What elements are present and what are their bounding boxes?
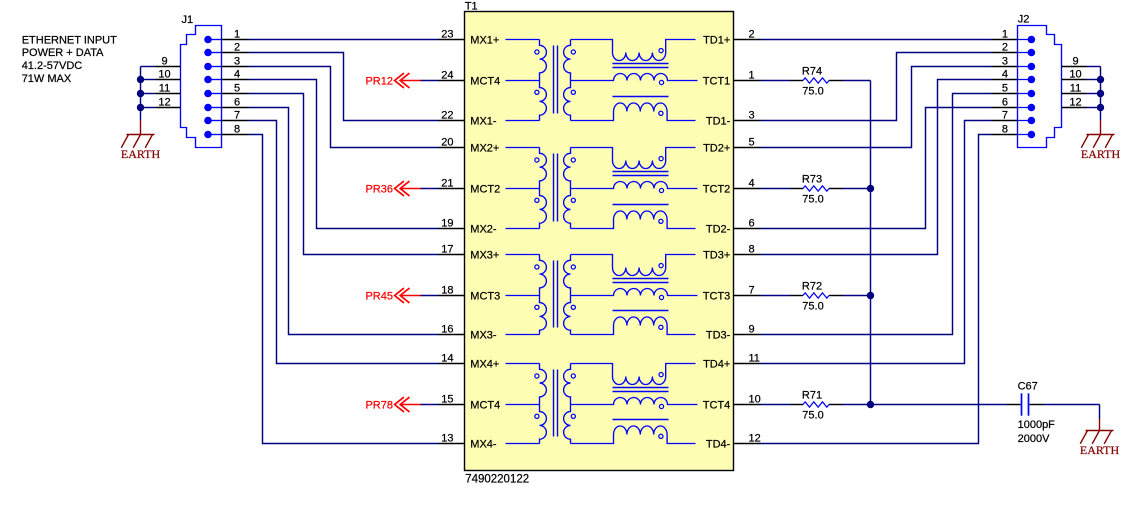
svg-text:3: 3 — [234, 55, 240, 67]
svg-text:7490220122: 7490220122 — [465, 474, 529, 486]
svg-text:9: 9 — [749, 323, 755, 335]
transformer T1 channel 3 core — [554, 261, 558, 328]
wire net TD3+ to J2.4 — [761, 80, 992, 255]
J2 pin 10 — [1062, 68, 1101, 80]
svg-text:1: 1 — [749, 69, 755, 81]
choke T1 channel 3 bottom winding — [571, 317, 696, 335]
ground right EARTH (EARTH symbol) — [1081, 135, 1121, 161]
transformer T1 channel 3 primary winding — [535, 255, 547, 335]
svg-text:9: 9 — [161, 55, 167, 67]
connector J1 body — [181, 26, 222, 148]
transformer T1 body (hierarchical block) — [465, 12, 734, 471]
svg-text:J1: J1 — [182, 14, 194, 26]
wire net J1.2 to T1 (vertical at x=343.5) — [249, 53, 439, 121]
wire J2 shield bus vertical to EARTH — [1100, 67, 1102, 120]
junction J2 pin10 — [1097, 76, 1104, 83]
svg-text:3: 3 — [1002, 55, 1008, 67]
wire net J1.3 to T1 (vertical at x=330.5) — [249, 67, 439, 148]
wire net J1.4 to T1 (vertical at x=316.5) — [249, 80, 439, 229]
resistor R74 75.0 ohm — [791, 65, 843, 97]
J2 pin 12 — [1062, 96, 1101, 108]
svg-text:75.0: 75.0 — [802, 193, 823, 205]
svg-text:17: 17 — [441, 243, 453, 255]
T1 pin 4 (TCT2) lead — [703, 177, 761, 195]
T1 pin 13 (MX4-) lead — [439, 432, 540, 450]
J1 pin 7 — [204, 109, 248, 124]
svg-text:75.0: 75.0 — [802, 409, 823, 421]
T1 pin 6 (TD2-) lead — [706, 217, 761, 235]
svg-text:TCT2: TCT2 — [703, 184, 731, 196]
wire net TD3- to J2.5 — [761, 94, 992, 335]
svg-text:MCT4: MCT4 — [470, 400, 500, 412]
svg-text:7: 7 — [749, 284, 755, 296]
T1 pin 8 (TD3+) lead — [703, 243, 760, 261]
svg-text:6: 6 — [234, 96, 240, 108]
svg-text:MX3+: MX3+ — [470, 250, 499, 262]
wire net R72 to termination bus — [843, 295, 871, 297]
wire net T1 TCT4 to R71 — [761, 404, 791, 406]
T1 pin 24 (MCT4) lead — [439, 69, 540, 87]
junction bus at R71 — [867, 401, 874, 408]
resistor R71 75.0 ohm — [791, 389, 843, 421]
svg-text:R71: R71 — [802, 389, 822, 401]
svg-text:4: 4 — [1002, 68, 1008, 80]
T1 pin 19 (MX2-) lead — [439, 217, 540, 235]
J1 pin 1 — [204, 28, 248, 43]
transformer T1 channel 1 primary winding — [535, 40, 547, 121]
transformer T1 channel 1 secondary winding — [564, 40, 576, 121]
svg-text:MCT2: MCT2 — [470, 184, 500, 196]
wire net TD2+ to J2.3 — [761, 67, 992, 148]
wire net PR12 to T1 — [421, 80, 439, 82]
svg-text:20: 20 — [441, 136, 453, 148]
choke T1 channel 4 core — [613, 388, 669, 392]
svg-text:POWER + DATA: POWER + DATA — [22, 47, 104, 59]
wire net PR45 to T1 — [421, 295, 439, 297]
svg-text:5: 5 — [234, 82, 240, 94]
svg-text:J2: J2 — [1018, 14, 1030, 26]
svg-text:14: 14 — [441, 352, 453, 364]
transformer T1 channel 4 secondary winding — [564, 364, 576, 444]
J2 pin 2 — [992, 41, 1036, 56]
J1 pin 12 — [141, 96, 181, 108]
svg-text:1000pF: 1000pF — [1018, 419, 1056, 431]
junction J1 pin12 — [137, 104, 144, 111]
choke T1 channel 4 middle winding (center tap) — [571, 398, 698, 409]
J2 pin 6 — [992, 96, 1036, 111]
svg-text:10: 10 — [1069, 68, 1081, 80]
J1 pin 9 — [141, 55, 181, 67]
svg-text:8: 8 — [234, 123, 240, 135]
svg-text:EARTH: EARTH — [121, 147, 161, 161]
svg-text:EARTH: EARTH — [1080, 443, 1120, 457]
svg-text:TCT4: TCT4 — [703, 400, 731, 412]
junction J2 pin12 — [1097, 104, 1104, 111]
T1 pin 1 (TCT1) lead — [703, 69, 761, 87]
svg-text:5: 5 — [749, 136, 755, 148]
svg-text:7: 7 — [1002, 109, 1008, 121]
transformer T1 channel 2 primary winding — [535, 148, 547, 229]
J2 pin 4 — [992, 68, 1036, 83]
choke T1 channel 2 bottom winding — [571, 211, 696, 229]
transformer T1 channel 4 primary winding — [535, 364, 547, 444]
svg-text:7: 7 — [234, 109, 240, 121]
wire net T1.2 (TD1+) to J2.1 — [761, 39, 992, 41]
svg-text:22: 22 — [441, 109, 453, 121]
wire net R74 to termination bus — [843, 80, 871, 82]
svg-text:MX2-: MX2- — [470, 224, 497, 236]
svg-text:10: 10 — [749, 393, 761, 405]
choke T1 channel 4 bottom winding — [571, 426, 696, 444]
svg-text:EARTH: EARTH — [1081, 147, 1121, 161]
wire net J1.8 to T1 (vertical at x=262.5) — [249, 135, 439, 444]
junction J1 pin10 — [137, 76, 144, 83]
svg-text:TD2+: TD2+ — [703, 143, 730, 155]
choke T1 channel 1 lower core — [613, 96, 669, 98]
J2 pin 7 — [992, 109, 1036, 124]
J1 pin 6 — [204, 96, 248, 111]
transformer T1 channel 2 core — [554, 154, 558, 222]
off-page connector PR36 (MCT net) — [365, 181, 420, 196]
svg-text:2: 2 — [749, 28, 755, 40]
svg-text:PR45: PR45 — [365, 291, 393, 303]
svg-text:12: 12 — [158, 96, 170, 108]
svg-text:TD1-: TD1- — [706, 116, 731, 128]
svg-text:8: 8 — [1002, 123, 1008, 135]
T1 pin 20 (MX2+) lead — [439, 136, 540, 154]
choke T1 channel 1 core — [613, 64, 669, 68]
choke T1 channel 2 middle winding (center tap) — [571, 182, 698, 193]
svg-text:2: 2 — [234, 41, 240, 53]
svg-text:MCT4: MCT4 — [470, 76, 500, 88]
svg-text:75.0: 75.0 — [802, 85, 823, 97]
T1 pin 3 (TD1-) lead — [706, 109, 761, 127]
svg-text:8: 8 — [749, 243, 755, 255]
T1 pin 12 (TD4-) lead — [706, 432, 761, 450]
svg-text:1: 1 — [234, 28, 240, 40]
T1 pin 21 (MCT2) lead — [439, 177, 540, 195]
svg-text:6: 6 — [1002, 96, 1008, 108]
svg-text:18: 18 — [441, 284, 453, 296]
T1 pin 16 (MX3-) lead — [439, 323, 540, 341]
svg-text:2000V: 2000V — [1018, 433, 1050, 445]
svg-text:MX1-: MX1- — [470, 116, 497, 128]
svg-text:R72: R72 — [802, 280, 822, 292]
svg-text:TD1+: TD1+ — [703, 35, 730, 47]
choke T1 channel 1 middle winding (center tap) — [571, 74, 698, 85]
svg-text:MX4-: MX4- — [470, 439, 497, 451]
svg-text:T1: T1 — [465, 1, 478, 13]
wire J1 shield bus vertical to EARTH — [140, 67, 142, 120]
T1 pin 11 (TD4+) lead — [703, 352, 760, 370]
T1 pin 2 (TD1+) lead — [703, 28, 760, 46]
wire net T1 TCT1 to R74 — [761, 80, 791, 82]
choke T1 channel 2 top winding — [571, 148, 696, 169]
transformer T1 channel 2 secondary winding — [564, 148, 576, 229]
wire net J1.1 to T1.23 (MX1+) — [249, 39, 439, 41]
choke T1 channel 3 middle winding (center tap) — [571, 289, 698, 300]
J1 pin 8 — [204, 123, 248, 138]
svg-text:PR36: PR36 — [365, 184, 393, 196]
svg-text:9: 9 — [1072, 55, 1078, 67]
wire net TD1- to J2.2 — [761, 53, 992, 121]
J1 pin 11 — [141, 82, 181, 94]
svg-text:12: 12 — [1069, 96, 1081, 108]
svg-text:MX2+: MX2+ — [470, 143, 499, 155]
svg-text:TCT3: TCT3 — [703, 291, 731, 303]
ground C67 EARTH (EARTH symbol) — [1080, 431, 1120, 457]
wire net bus to C67 — [871, 404, 1007, 406]
J1 pin 2 — [204, 41, 248, 56]
junction J1 pin11 — [137, 90, 144, 97]
T1 pin 10 (TCT4) lead — [703, 393, 761, 411]
transformer T1 channel 1 core — [554, 46, 558, 114]
svg-text:41.2-57VDC: 41.2-57VDC — [22, 60, 83, 72]
svg-text:10: 10 — [158, 68, 170, 80]
J2 pin 11 — [1062, 82, 1101, 94]
wire net T1 TCT3 to R72 — [761, 295, 791, 297]
choke T1 channel 3 top winding — [571, 255, 696, 276]
svg-text:TD3-: TD3- — [706, 330, 731, 342]
wire net J1.5 to T1 (vertical at x=303.5) — [249, 94, 439, 255]
text note: ETHERNET INPUT POWER + DATA 41.2-57VDC 71W MAX — [22, 34, 117, 84]
svg-text:C67: C67 — [1018, 381, 1038, 393]
wire net C67 to EARTH — [1044, 405, 1100, 419]
svg-text:1: 1 — [1002, 28, 1008, 40]
svg-text:TD2-: TD2- — [706, 224, 731, 236]
svg-text:21: 21 — [441, 177, 453, 189]
svg-text:2: 2 — [1002, 41, 1008, 53]
svg-text:4: 4 — [234, 68, 240, 80]
J2 pin 3 — [992, 55, 1036, 70]
J2 pin 5 — [992, 82, 1036, 97]
svg-text:PR12: PR12 — [365, 76, 393, 88]
J2 pin 1 — [992, 28, 1036, 43]
ground left EARTH (EARTH symbol) — [121, 135, 161, 161]
connector J2 body — [1018, 26, 1062, 148]
T1 pin 15 (MCT4) lead — [439, 393, 540, 411]
svg-text:13: 13 — [441, 432, 453, 444]
J2 pin 8 — [992, 123, 1036, 138]
T1 pin 18 (MCT3) lead — [439, 284, 540, 302]
T1 pin 7 (TCT3) lead — [703, 284, 761, 302]
choke T1 channel 3 core — [613, 279, 669, 283]
off-page connector PR78 (MCT net) — [365, 397, 420, 412]
T1 pin 17 (MX3+) lead — [439, 243, 540, 261]
svg-text:11: 11 — [749, 352, 760, 364]
wire net TD4+ to J2.7 — [761, 121, 992, 364]
wire net TD4- to J2.8 — [761, 135, 992, 444]
wire net T1 TCT2 to R73 — [761, 188, 791, 190]
svg-text:MCT3: MCT3 — [470, 291, 500, 303]
svg-text:16: 16 — [441, 323, 453, 335]
wire net TD2- to J2.6 — [761, 108, 992, 229]
choke T1 channel 1 bottom winding — [571, 103, 696, 121]
svg-text:19: 19 — [441, 217, 453, 229]
svg-text:12: 12 — [749, 432, 761, 444]
junction J2 pin11 — [1097, 90, 1104, 97]
wire net PR78 to T1 — [421, 404, 439, 406]
off-page connector PR45 (MCT net) — [365, 288, 420, 303]
T1 pin 9 (TD3-) lead — [706, 323, 761, 341]
svg-text:11: 11 — [159, 82, 170, 94]
wire termination bus vertical — [870, 81, 872, 405]
svg-text:MX3-: MX3- — [470, 330, 497, 342]
junction bus at R73 — [867, 185, 874, 192]
choke T1 channel 3 lower core — [613, 310, 669, 312]
choke T1 channel 2 core — [613, 172, 669, 176]
svg-text:11: 11 — [1070, 82, 1081, 94]
choke T1 channel 4 top winding — [571, 364, 696, 385]
svg-text:TCT1: TCT1 — [703, 76, 731, 88]
svg-text:75.0: 75.0 — [802, 300, 823, 312]
J1 pin 4 — [204, 68, 248, 83]
junction bus at R72 — [867, 292, 874, 299]
wire net R71 to termination bus — [843, 404, 871, 406]
choke T1 channel 2 lower core — [613, 204, 669, 206]
T1 pin 23 (MX1+) lead — [439, 28, 540, 46]
capacitor C67 1000pF 2000V — [1007, 381, 1056, 445]
svg-text:4: 4 — [749, 177, 755, 189]
J2 pin 9 — [1062, 55, 1101, 67]
J1 pin 10 — [141, 68, 181, 80]
resistor R73 75.0 ohm — [791, 173, 843, 205]
wire net J1.7 to T1 (vertical at x=276.5) — [249, 121, 439, 364]
svg-text:R74: R74 — [802, 65, 822, 77]
svg-text:ETHERNET INPUT: ETHERNET INPUT — [22, 34, 117, 46]
transformer T1 channel 3 secondary winding — [564, 255, 576, 335]
J1 pin 3 — [204, 55, 248, 70]
svg-text:TD3+: TD3+ — [703, 250, 730, 262]
wire net J1.6 to T1 (vertical at x=288.5) — [249, 108, 439, 335]
svg-text:3: 3 — [749, 109, 755, 121]
svg-text:5: 5 — [1002, 82, 1008, 94]
svg-text:TD4+: TD4+ — [703, 359, 730, 371]
choke T1 channel 4 lower core — [613, 419, 669, 421]
transformer T1 channel 4 core — [554, 370, 558, 437]
off-page connector PR12 (MCT net) — [365, 73, 420, 88]
resistor R72 75.0 ohm — [791, 280, 843, 312]
choke T1 channel 1 top winding — [571, 40, 696, 61]
svg-text:24: 24 — [441, 69, 453, 81]
T1 pin 14 (MX4+) lead — [439, 352, 540, 370]
svg-text:23: 23 — [441, 28, 453, 40]
wire net R73 to termination bus — [843, 188, 871, 190]
J1 pin 5 — [204, 82, 248, 97]
svg-text:MX4+: MX4+ — [470, 359, 499, 371]
wire net PR36 to T1 — [421, 188, 439, 190]
T1 pin 5 (TD2+) lead — [703, 136, 760, 154]
svg-text:71W MAX: 71W MAX — [22, 73, 72, 85]
svg-text:TD4-: TD4- — [706, 439, 731, 451]
T1 pin 22 (MX1-) lead — [439, 109, 540, 127]
svg-text:R73: R73 — [802, 173, 822, 185]
svg-text:PR78: PR78 — [365, 400, 393, 412]
svg-text:15: 15 — [441, 393, 453, 405]
svg-text:6: 6 — [749, 217, 755, 229]
svg-text:MX1+: MX1+ — [470, 35, 499, 47]
